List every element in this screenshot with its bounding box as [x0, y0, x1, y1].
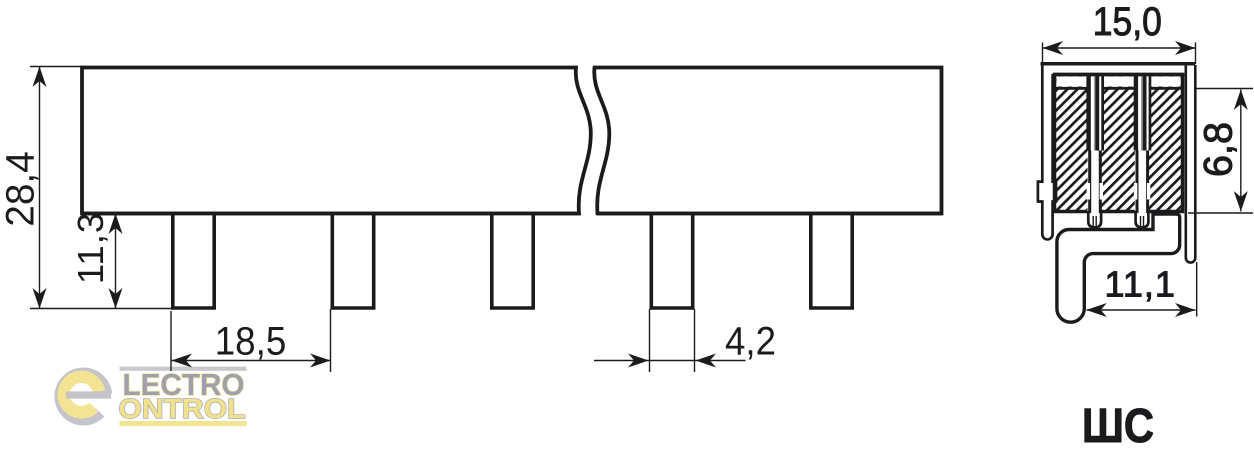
busbar body right part with break: [594, 68, 941, 214]
tooth pin 2: [332, 214, 373, 309]
body bottom line over teeth joints: [82, 212, 942, 216]
arrow 4,2 left-pointing-right: [628, 354, 649, 368]
tooth pin 4: [651, 214, 692, 309]
tooth pin 5: [811, 214, 852, 309]
ext lines 4,2: [649, 309, 651, 372]
dim line 18,5: [171, 360, 331, 362]
tooth pin 3: [492, 214, 533, 309]
ext lines 18,5: [170, 311, 172, 371]
hatched insulation block: [1055, 75, 1183, 212]
dim 11,1: [1087, 262, 1197, 317]
svg-text:ШС: ШС: [1082, 400, 1154, 453]
white top band: [1057, 77, 1181, 87]
logo bottom yellow bar: [120, 421, 247, 426]
svg-text:6,8: 6,8: [1197, 122, 1241, 177]
extension line top: [30, 66, 84, 68]
tooth pin 1: [173, 214, 214, 309]
dim line 4,2 with tails: [594, 360, 746, 362]
svg-text:11,1: 11,1: [1104, 264, 1175, 305]
arrow 18,5 left: [172, 354, 193, 368]
logo big e bar: [66, 391, 111, 398]
housing right wall: [1186, 65, 1196, 263]
top band underline segments: [1056, 87, 1181, 90]
pin B in slot: [1134, 76, 1152, 213]
arrow 11,3 down: [109, 288, 123, 309]
arrow 4,2 right-pointing-left: [696, 354, 717, 368]
arrow 28,4 down: [33, 288, 47, 309]
dim line 28,4: [39, 67, 41, 309]
logo big e gray ring: [54, 368, 112, 426]
logo big e yellow ring: [57, 371, 105, 419]
arrow 11,3 up: [109, 214, 123, 235]
slot B white: [1135, 76, 1149, 227]
svg-text:28,4: 28,4: [0, 151, 43, 227]
housing top wall: [1041, 62, 1196, 66]
arrow 28,4 up: [33, 67, 47, 88]
slot A white: [1088, 76, 1102, 227]
svg-text:ONTROL: ONTROL: [119, 393, 246, 424]
svg-text:18,5: 18,5: [215, 320, 287, 364]
bent L pin: [1057, 214, 1180, 322]
pin A in slot: [1086, 76, 1104, 213]
dim 6,8: [1188, 89, 1253, 214]
extension line bottom teeth: [30, 308, 171, 310]
housing left wall: [1038, 65, 1056, 239]
arrow 18,5 right: [310, 354, 331, 368]
block top border redraw: [1053, 73, 1185, 77]
busbar body left part with break: [82, 68, 591, 214]
svg-text:15,0: 15,0: [1093, 0, 1162, 44]
svg-text:11,3: 11,3: [70, 212, 111, 284]
logo top gray bar: [120, 367, 247, 371]
dim 15,0: [1043, 43, 1196, 65]
svg-text:4,2: 4,2: [725, 320, 776, 364]
dim line 11,3: [115, 214, 117, 309]
